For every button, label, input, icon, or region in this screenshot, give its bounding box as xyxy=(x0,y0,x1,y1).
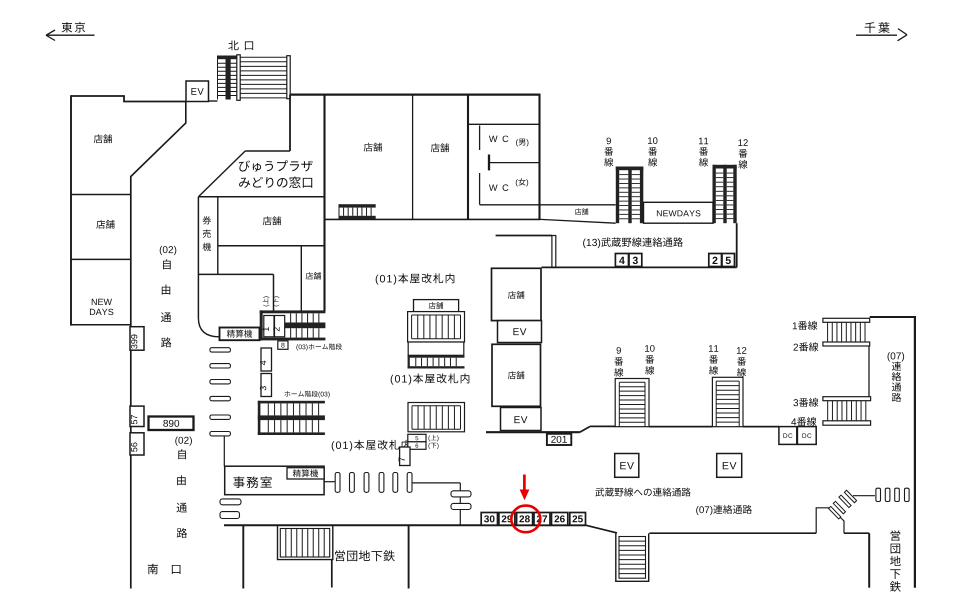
label (03)ホーム階段 xyxy=(296,343,341,350)
label (07)連絡通路 horizontal xyxy=(696,505,752,515)
hatched lower stair flight xyxy=(408,355,465,357)
NEWDAYS shop box xyxy=(644,202,714,223)
diagonal wall up to platform stair level xyxy=(580,426,590,432)
fare gate bars horizontal row xyxy=(335,473,340,493)
corridor 13 right wall xyxy=(736,223,738,267)
central elevator EV 2 xyxy=(501,408,542,431)
stair platform 1/2 xyxy=(823,318,870,322)
label shop 店舗 upper-left xyxy=(94,134,112,143)
room corner wall above stair xyxy=(198,273,273,275)
label (上)(下) rotated above stair 03 xyxy=(263,296,270,306)
label (02) free passage lower xyxy=(175,436,192,445)
stair to platform 9/10 lower xyxy=(615,379,649,427)
ad box 4 xyxy=(615,254,628,267)
subway stair lower right xyxy=(616,533,649,581)
shops bottom wall y=219.4 xyxy=(325,218,541,220)
pentagon kiosk structure xyxy=(816,508,844,533)
sign boxes 30 29 28 27 26 25 xyxy=(481,513,497,526)
wall right of north stairs xyxy=(289,95,291,151)
top wall to right boundary xyxy=(870,316,915,318)
DC box 2 xyxy=(797,427,816,445)
wall connecting EV to stairs xyxy=(209,100,218,102)
label View Plaza びゅうプラザ みどりの窓口 xyxy=(239,160,313,172)
label platform 9番線 lower xyxy=(617,347,621,354)
ad box 2 xyxy=(709,254,722,267)
WC partition wall with stub xyxy=(489,162,540,164)
sign box 57 xyxy=(130,406,144,426)
north exit stair right end column xyxy=(287,56,290,99)
label platform 12番線 upper xyxy=(738,139,747,146)
left outer wall vertical xyxy=(70,95,72,325)
escalator slashes to subway xyxy=(829,506,841,519)
stair block A upper xyxy=(408,312,465,342)
wall to lower stair 9/10 xyxy=(590,425,615,427)
stair block B lower xyxy=(408,403,465,432)
subway stair south 営団地下鉄 xyxy=(278,526,333,560)
sloped corridor wall toward platform 9 xyxy=(540,219,615,223)
north exit stair divider column xyxy=(237,55,240,101)
elevator EV box top xyxy=(186,81,209,102)
label (01)本屋改札内 top xyxy=(376,273,455,284)
south area wall x=408.6 xyxy=(408,526,410,589)
label 営団地下鉄 left xyxy=(335,550,395,561)
thick wall x=468 xyxy=(467,94,469,220)
gate pills on T-junction xyxy=(451,491,471,497)
platform 9/10 escalator-stair block upper xyxy=(616,167,644,171)
label 4番線 xyxy=(791,417,816,426)
ticket machine room 券売機 walls xyxy=(198,196,324,198)
sign box 4 rotated xyxy=(261,348,272,371)
wall nook horizontal xyxy=(245,150,290,152)
main lower corridor wall xyxy=(224,524,586,526)
narrow shop room wall xyxy=(300,246,302,312)
central elevator EV 1 xyxy=(498,321,542,343)
direction arrow to Chiba (top-right) xyxy=(865,22,890,33)
label (01)本屋改札内 middle xyxy=(391,373,470,384)
label platform 11番線 upper xyxy=(699,138,708,145)
wall from gates to T-junction xyxy=(412,482,460,484)
shop room below plaza xyxy=(218,245,325,247)
label NEW DAYS store xyxy=(92,299,112,305)
label WC men xyxy=(489,136,508,143)
label platform 12番線 lower xyxy=(737,347,746,354)
sign box 201 xyxy=(547,434,571,445)
stair to platform 11/12 lower xyxy=(712,377,743,426)
diagonal wall of plaza room xyxy=(198,151,245,197)
ad box 3 xyxy=(629,254,642,267)
shop divider 1 xyxy=(71,194,131,196)
WC room inner top wall xyxy=(468,123,540,125)
label ホーム階段(03) xyxy=(285,391,330,398)
office 事務室 box xyxy=(225,466,324,495)
thick wall under EV2 to diagonal xyxy=(486,431,580,433)
label (13)武蔵野線連絡通路 xyxy=(583,237,683,248)
elevator EV lower-left xyxy=(615,454,639,478)
label WC women xyxy=(489,184,508,191)
sign box 7 rotated xyxy=(400,447,410,466)
fare adjustment 精算機 box lower xyxy=(287,468,324,479)
wall below EV and diagonal to corridor xyxy=(131,102,186,177)
fare adjustment 精算機 box upper xyxy=(220,328,260,341)
escalator box 1 rotated xyxy=(264,316,274,337)
red arrow marker xyxy=(523,475,526,491)
stair (03) hatched block xyxy=(260,310,326,313)
label shop 店舗 top room 2 xyxy=(431,143,449,152)
label south exit 南口 xyxy=(148,564,158,575)
sign box 6 with (下) xyxy=(408,442,426,450)
label north exit 北口 xyxy=(228,40,238,50)
label 3番線 xyxy=(793,398,818,407)
concourse wall between stairs xyxy=(649,426,712,428)
shop divider x=412.6 xyxy=(412,95,414,220)
label (02) free passage upper xyxy=(160,246,177,255)
label 1番線 xyxy=(793,321,818,330)
label 2番線 xyxy=(794,342,819,351)
inner wall down right xyxy=(868,533,870,588)
corridor diagonal step down xyxy=(586,525,618,533)
sign box 3 rotated xyxy=(261,374,272,397)
concourse wall to DC boxes xyxy=(743,426,779,428)
direction arrow to Tokyo (top-left) xyxy=(62,22,85,33)
south area wall below stair xyxy=(331,559,333,587)
central shop room 1 xyxy=(492,268,542,320)
label (07)連絡通路 vertical right xyxy=(888,352,905,361)
sign box 5 with (上) xyxy=(408,434,426,442)
fare gate bars vertical column xyxy=(210,348,231,352)
NEW DAYS bottom wall xyxy=(71,324,131,326)
escalator box 2 rotated xyxy=(275,316,285,337)
thick wall x=324.5 xyxy=(323,94,325,312)
ad box 5 xyxy=(722,254,735,267)
connector line to subway gates xyxy=(853,495,875,497)
label platform 9番線 upper xyxy=(607,138,611,145)
label 武蔵野線への連絡通路 xyxy=(595,488,690,497)
gate pills below office xyxy=(220,499,241,505)
small hatched stair on shop wall xyxy=(339,204,376,207)
corridor 13 upper-left corner wall xyxy=(496,235,552,237)
shop divider 2 xyxy=(71,258,131,260)
label platform 10番線 lower xyxy=(645,345,654,352)
wall from last gate to office xyxy=(223,436,225,466)
label shop 店舗 top room 1 xyxy=(364,143,382,152)
corridor wall below WC xyxy=(480,204,616,206)
connector office to first gate xyxy=(324,481,335,483)
sign box 8 xyxy=(278,341,288,349)
elevator EV lower-right xyxy=(717,454,742,478)
sign box 399 xyxy=(130,327,144,351)
right boundary wall xyxy=(914,316,916,588)
corridor 13 bottom wall xyxy=(542,266,737,268)
corridor 13 left double wall xyxy=(552,236,556,268)
label 営団地下鉄 vertical right xyxy=(891,530,901,541)
corridor west edge wall xyxy=(130,176,132,589)
stair (02) large hatched block xyxy=(258,401,325,404)
corridor wall pentagon to inner wall xyxy=(844,532,869,534)
curved wall into fare-adjustment machine xyxy=(198,318,219,337)
south area wall x=243 xyxy=(242,526,244,589)
label small shop 店舗 corridor xyxy=(575,208,588,214)
red circle highlight around 28 xyxy=(511,506,540,533)
central shop room 2 xyxy=(492,344,541,406)
main top wall of paid area xyxy=(290,93,540,95)
label platform 10番線 upper xyxy=(648,137,657,144)
subway fare gate bars xyxy=(876,488,881,501)
sign box 890 xyxy=(149,417,194,431)
wall between stairs 1/2 and 3/4 xyxy=(868,346,870,397)
wall x=539.5 right of WC xyxy=(538,94,540,220)
stair platform 3/4 xyxy=(823,397,871,401)
label platform 11番線 lower xyxy=(709,345,718,352)
label shop 店舗 mid-left xyxy=(96,220,114,229)
outer wall top-left xyxy=(71,96,186,102)
north exit stair right block treads xyxy=(240,56,287,58)
north exit stair left block with escalator strip xyxy=(218,56,238,60)
WC door wall segments xyxy=(479,126,481,151)
platform 11/12 escalator-stair block upper xyxy=(713,165,737,169)
stair landing box xyxy=(408,342,464,355)
small shop box above stair xyxy=(414,300,459,312)
sign box 56 xyxy=(130,433,144,455)
DC box 1 xyxy=(779,427,797,445)
corridor wall under stair to 816 xyxy=(649,532,816,534)
label 券売機 vertical xyxy=(203,216,211,224)
label (01)本屋改札内 lower xyxy=(332,440,411,451)
